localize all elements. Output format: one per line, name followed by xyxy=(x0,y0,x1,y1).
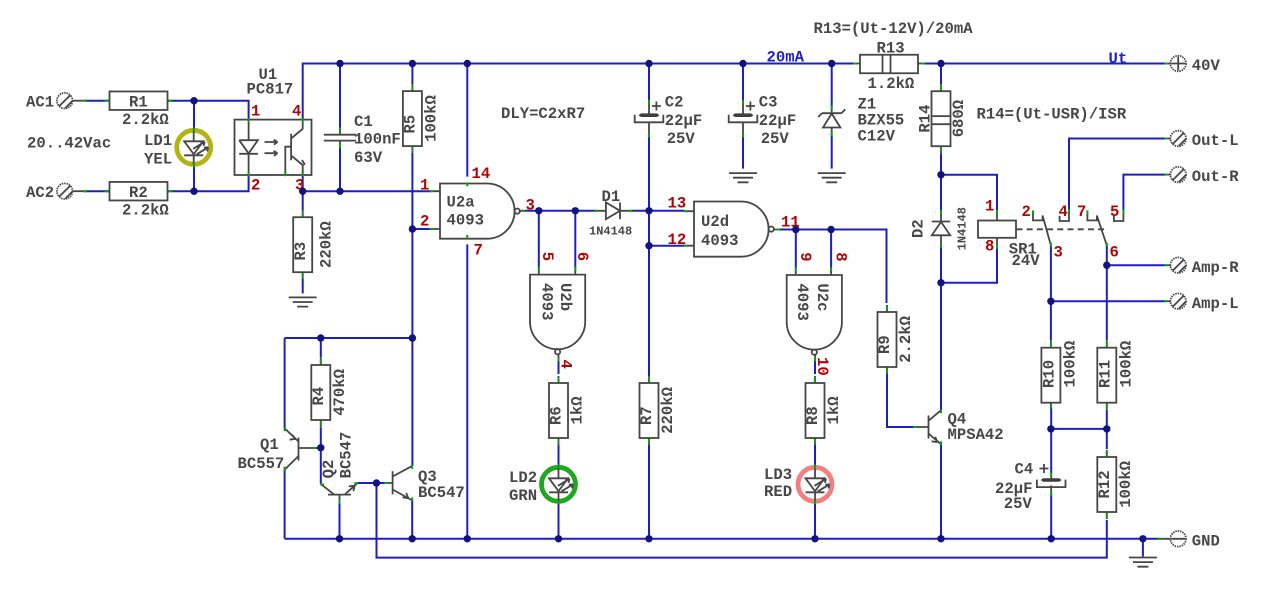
wire top supply rail left (U1 pin4 up, across to R13) xyxy=(303,64,854,120)
svg-text:12: 12 xyxy=(668,231,687,249)
wire R5 bottom down through U2a pin2 node to Q3 collector xyxy=(411,153,413,466)
wire U2b output to R6 xyxy=(558,361,560,375)
svg-text:D1: D1 xyxy=(602,188,621,206)
wire D2 bottom to node xyxy=(940,247,942,283)
svg-text:8: 8 xyxy=(832,252,850,261)
svg-text:C1: C1 xyxy=(354,113,373,131)
junction U2a pin2 node xyxy=(409,225,416,232)
svg-text:R13=(Ut-12V)/20mA: R13=(Ut-12V)/20mA xyxy=(814,20,974,38)
svg-text:R12: R12 xyxy=(1096,470,1114,498)
svg-text:4093: 4093 xyxy=(793,283,811,320)
wire R8 to LD3 xyxy=(814,445,816,465)
relay contact B (pins 7,5,6) xyxy=(1077,203,1124,261)
svg-text:2.2kΩ: 2.2kΩ xyxy=(122,202,169,220)
svg-text:470kΩ: 470kΩ xyxy=(331,369,349,416)
wire C3 top xyxy=(742,64,744,101)
svg-text:2: 2 xyxy=(1022,203,1031,221)
zener diode Z1 xyxy=(818,95,904,145)
junction U2b pin5 tap xyxy=(535,207,542,214)
svg-text:Q2: Q2 xyxy=(320,460,338,479)
svg-text:R14=(Ut-USR)/ISR: R14=(Ut-USR)/ISR xyxy=(977,106,1127,124)
junction Amp-L node xyxy=(1047,298,1054,305)
junction Z1 top rail xyxy=(828,60,835,67)
svg-text:R2: R2 xyxy=(129,184,148,202)
svg-text:AC2: AC2 xyxy=(26,184,54,202)
svg-text:63V: 63V xyxy=(354,149,383,167)
wire node to relay coil pin1 xyxy=(941,175,997,211)
wire R14 top from rail xyxy=(940,64,942,85)
wire R5 top xyxy=(411,64,413,85)
wire U2a pin14 from rail xyxy=(466,64,468,177)
svg-text:22µF: 22µF xyxy=(665,112,702,130)
wire U2d output to R9 corner xyxy=(780,230,887,304)
terminal Out-R xyxy=(1164,167,1239,186)
svg-text:100kΩ: 100kΩ xyxy=(422,95,440,142)
svg-text:1kΩ: 1kΩ xyxy=(569,396,587,424)
svg-text:GRN: GRN xyxy=(509,487,537,505)
svg-text:Amp-L: Amp-L xyxy=(1192,295,1239,313)
svg-text:4093: 4093 xyxy=(701,232,738,250)
svg-text:C2: C2 xyxy=(665,94,684,112)
svg-text:100kΩ: 100kΩ xyxy=(1117,461,1135,508)
svg-text:24V: 24V xyxy=(1012,252,1041,270)
wire R4 top xyxy=(320,338,322,358)
junction C2 top rail xyxy=(645,60,652,67)
wire base node down to Q2 collector xyxy=(320,448,322,484)
junction R14 top rail xyxy=(937,60,944,67)
svg-text:13: 13 xyxy=(668,195,687,213)
svg-text:4: 4 xyxy=(292,103,301,121)
svg-text:5: 5 xyxy=(538,252,556,261)
wire Amp-L node to terminal xyxy=(1051,300,1165,302)
junction C3 top rail xyxy=(739,60,746,67)
wire U2c pin8 drop xyxy=(830,230,832,269)
resistor R4 xyxy=(310,358,349,427)
svg-text:14: 14 xyxy=(472,165,491,183)
wire Amp-L node down to R10 xyxy=(1050,301,1052,340)
wire R2 to U1 pin2 xyxy=(167,176,249,191)
svg-text:U2b: U2b xyxy=(556,283,574,311)
wire D2 top xyxy=(940,175,942,211)
wire top supply rail right (R13 to 40V terminal) xyxy=(924,63,1166,65)
svg-text:1: 1 xyxy=(985,197,994,215)
SECTION: junctions xyxy=(190,60,1146,543)
svg-text:R14: R14 xyxy=(916,105,934,133)
wire U2a pin7 down to GND rail xyxy=(466,244,468,538)
junction U2b pin6 tap xyxy=(572,207,579,214)
junction Q3 collector node xyxy=(409,334,416,341)
svg-text:R9: R9 xyxy=(876,335,894,354)
wire R9 bottom to Q4 base xyxy=(887,374,914,427)
resistor R8 xyxy=(804,376,843,445)
junction divider node R11 xyxy=(1103,425,1110,432)
wire R7 bottom to GND rail xyxy=(648,445,650,539)
wire Q4 collector up to relay node xyxy=(940,283,942,410)
svg-text:R10: R10 xyxy=(1040,360,1058,388)
svg-text:100nF: 100nF xyxy=(354,130,401,148)
svg-text:220kΩ: 220kΩ xyxy=(659,387,677,434)
terminal Out-L xyxy=(1164,131,1238,150)
junction GND rail Q3 emitter xyxy=(409,535,416,542)
resistor R14 xyxy=(916,84,968,153)
capacitor C3 xyxy=(729,94,797,149)
svg-text:1kΩ: 1kΩ xyxy=(825,396,843,424)
wire GND rail stub to ground symbol xyxy=(1142,539,1144,557)
LED LD1 xyxy=(144,128,211,169)
svg-text:1: 1 xyxy=(251,103,260,121)
transistor Q2 (NPN BC547 rotated) xyxy=(320,432,358,504)
svg-text:R5: R5 xyxy=(402,115,420,134)
wire LD3 to GND rail xyxy=(814,503,816,539)
LED LD2 xyxy=(509,465,576,505)
wire U2d pin12 xyxy=(649,245,685,247)
junction divider node R10 xyxy=(1047,425,1054,432)
wire divider node row xyxy=(1051,428,1107,430)
svg-text:YEL: YEL xyxy=(144,150,172,168)
junction D1 C2 node xyxy=(645,207,652,214)
junction LD1 bottom xyxy=(190,188,197,195)
svg-text:1.2kΩ: 1.2kΩ xyxy=(868,75,915,93)
terminal Amp-R xyxy=(1164,257,1239,276)
junction U2a pin14 rail xyxy=(464,60,471,67)
wire D1 to U2d pin13 xyxy=(632,210,685,212)
svg-text:LD1: LD1 xyxy=(144,132,172,150)
svg-text:RED: RED xyxy=(764,483,792,501)
svg-text:BC557: BC557 xyxy=(238,455,285,473)
svg-text:9: 9 xyxy=(796,252,814,261)
wire U2b pin6 drop xyxy=(574,211,576,268)
wire U2a pin2 xyxy=(412,228,430,230)
wire C4 top xyxy=(1050,429,1052,473)
wire Q2 base down to GND rail xyxy=(339,503,341,539)
junction R14 bottom node xyxy=(937,171,944,178)
svg-text:1: 1 xyxy=(420,177,429,195)
svg-text:R3: R3 xyxy=(292,242,310,261)
resistor R3 xyxy=(292,210,336,279)
svg-text:4093: 4093 xyxy=(447,211,484,229)
wire relay pin4 up to Out-L xyxy=(1069,139,1165,211)
svg-text:PC817: PC817 xyxy=(247,81,294,99)
svg-text:8: 8 xyxy=(985,238,994,256)
svg-text:5: 5 xyxy=(1110,203,1119,221)
resistor R5 xyxy=(402,84,441,153)
svg-text:LD2: LD2 xyxy=(509,469,537,487)
svg-text:R11: R11 xyxy=(1096,360,1114,388)
svg-text:U2a: U2a xyxy=(447,194,475,212)
LED LD3 xyxy=(764,465,832,505)
NAND gate U2a xyxy=(420,165,535,259)
svg-text:7: 7 xyxy=(1077,203,1086,221)
svg-text:Q1: Q1 xyxy=(260,436,279,454)
wire C3 bottom to ground xyxy=(742,137,744,169)
junction Q3 base node xyxy=(373,479,380,486)
junction GND rail R7 xyxy=(645,535,652,542)
svg-text:GND: GND xyxy=(1192,532,1220,550)
wire R6 to LD2 xyxy=(558,445,560,465)
capacitor C4 xyxy=(995,460,1065,513)
svg-text:D2: D2 xyxy=(910,219,928,238)
diode D2 xyxy=(910,207,970,250)
SECTION: wires xyxy=(84,64,1166,558)
junction GND rail C4 xyxy=(1048,535,1055,542)
svg-text:10: 10 xyxy=(813,357,831,376)
svg-text:100kΩ: 100kΩ xyxy=(1117,341,1135,388)
wire C4 bottom to GND rail xyxy=(1050,495,1052,539)
svg-text:22µF: 22µF xyxy=(759,112,796,130)
transistor Q4 (NPN MPSA42) xyxy=(913,409,1003,445)
svg-text:2.2kΩ: 2.2kΩ xyxy=(897,316,915,363)
junction GND rail LD2 xyxy=(555,535,562,542)
junction R5 top rail xyxy=(409,60,416,67)
svg-text:2: 2 xyxy=(251,177,260,195)
junction GND rail Q2 base xyxy=(336,535,343,542)
resistor R11 xyxy=(1096,341,1135,410)
svg-text:25V: 25V xyxy=(1004,495,1033,513)
wire R14 bottom to node xyxy=(940,153,942,174)
svg-text:3: 3 xyxy=(526,196,535,214)
svg-text:U2c: U2c xyxy=(813,283,831,311)
wire AC2 terminal to R2 xyxy=(84,190,110,192)
svg-text:R7: R7 xyxy=(638,406,656,425)
wire Z1 bottom to ground xyxy=(831,136,833,169)
wire R12 bottom to lower sense bus xyxy=(377,483,1107,558)
svg-text:2: 2 xyxy=(420,212,429,230)
terminal GND xyxy=(1157,531,1219,550)
NAND gate U2b xyxy=(530,252,591,369)
wire Q2 emitter to Q3 base node xyxy=(357,482,385,484)
junction U2c pin9 tap xyxy=(792,226,799,233)
svg-text:Out-L: Out-L xyxy=(1192,132,1239,150)
wire GND rail xyxy=(285,538,1159,540)
wire LD1 branch vertical xyxy=(193,101,195,192)
NAND gate U2c xyxy=(787,252,850,376)
svg-text:3: 3 xyxy=(1054,243,1063,261)
junction R4 bottom Q1 base node xyxy=(317,444,324,451)
wire R4 bottom to base node xyxy=(320,427,322,448)
wire Z1 top xyxy=(831,64,833,107)
wire U1 pin3 down to node rail xyxy=(302,176,304,191)
junction GND rail ground stub xyxy=(1139,535,1146,542)
svg-text:4093: 4093 xyxy=(538,283,556,320)
junction LD1 top xyxy=(190,97,197,104)
svg-text:680Ω: 680Ω xyxy=(950,100,968,137)
wire Q4 emitter to GND rail xyxy=(940,444,942,539)
wire Amp-R node to terminal xyxy=(1107,264,1165,266)
relay coil SR1 xyxy=(978,197,1105,270)
svg-text:C12V: C12V xyxy=(858,127,896,145)
wire relay pin3 down to Amp-L node xyxy=(1050,246,1052,301)
svg-text:20..42Vac: 20..42Vac xyxy=(27,134,111,152)
junction GND rail LD3 xyxy=(811,535,818,542)
terminal AC1 xyxy=(26,93,87,111)
junction GND rail U2a pin7 xyxy=(464,535,471,542)
wire R1 to U1 pin1 xyxy=(167,101,249,119)
svg-text:R1: R1 xyxy=(129,93,148,111)
diode D1 xyxy=(589,188,632,238)
junction U2d pin12 tap xyxy=(645,242,652,249)
svg-text:20mA: 20mA xyxy=(767,49,805,67)
svg-text:4: 4 xyxy=(1059,203,1068,221)
terminal AC2 xyxy=(26,183,87,201)
svg-text:R13: R13 xyxy=(877,39,905,57)
ground for Z1 xyxy=(818,173,846,182)
wire R3 top xyxy=(302,191,304,210)
resistor R6 xyxy=(548,376,587,445)
terminal Amp-L xyxy=(1164,293,1238,312)
svg-text:2.2kΩ: 2.2kΩ xyxy=(122,111,169,129)
svg-text:6: 6 xyxy=(573,252,591,261)
svg-text:25V: 25V xyxy=(761,130,790,148)
optocoupler U1 xyxy=(235,66,312,195)
svg-text:40V: 40V xyxy=(1192,57,1221,75)
wire LD2 to GND rail xyxy=(558,503,560,539)
svg-text:Out-R: Out-R xyxy=(1192,168,1239,186)
transistor Q1 (PNP BC557) xyxy=(238,428,317,473)
wire U2a output to D1 xyxy=(525,210,596,212)
svg-text:Ut: Ut xyxy=(1109,50,1128,68)
relay contact A (pins 2,4,3) xyxy=(1022,203,1071,261)
resistor R2 xyxy=(105,182,173,220)
svg-text:MPSA42: MPSA42 xyxy=(948,426,1004,444)
wire relay coil pin8 to node xyxy=(941,248,997,283)
capacitor C1 xyxy=(324,113,401,167)
wire C1 top xyxy=(339,64,341,128)
junction R4 top node xyxy=(317,334,324,341)
svg-text:Amp-R: Amp-R xyxy=(1192,259,1239,277)
svg-text:C4: C4 xyxy=(1015,460,1034,478)
svg-text:U2d: U2d xyxy=(701,213,729,231)
wire Q1 base xyxy=(314,447,321,449)
svg-text:DLY=C2xR7: DLY=C2xR7 xyxy=(501,105,585,123)
wire U2c output to R8 xyxy=(814,361,816,375)
junction U1 pin3 node xyxy=(299,188,306,195)
wire Q1 collector down to GND rail corner xyxy=(284,470,286,539)
wire Q3 emitter down to GND rail xyxy=(411,500,413,538)
svg-text:C3: C3 xyxy=(759,94,778,112)
wire U2b pin5 drop xyxy=(538,211,540,268)
capacitor C2 xyxy=(635,94,703,149)
svg-text:4: 4 xyxy=(557,360,575,369)
resistor R10 xyxy=(1040,341,1079,410)
svg-text:220kΩ: 220kΩ xyxy=(318,221,336,268)
ground at GND rail xyxy=(1129,558,1157,567)
svg-text:BC547: BC547 xyxy=(418,484,465,502)
resistor R9 xyxy=(876,305,915,374)
terminal 40V xyxy=(1164,56,1220,75)
junction Amp-R node xyxy=(1103,262,1110,269)
junction GND rail Q4 emitter xyxy=(937,535,944,542)
wire relay pin6 down through Amp-R node to R11 xyxy=(1106,246,1108,341)
svg-text:AC1: AC1 xyxy=(26,93,54,111)
wire node rail U1 pin3 to U2a pin1 xyxy=(303,190,431,192)
svg-text:1N4148: 1N4148 xyxy=(589,224,632,238)
junction C1 top rail xyxy=(336,60,343,67)
wire node row Q1 to R4 to Q3 collector vertical xyxy=(285,337,413,339)
resistor R13 xyxy=(853,39,925,93)
svg-text:6: 6 xyxy=(1110,243,1119,261)
svg-text:LD3: LD3 xyxy=(764,466,792,484)
svg-text:1N4148: 1N4148 xyxy=(955,207,969,250)
wire AC1 terminal to R1 xyxy=(84,100,110,102)
ground for C3 xyxy=(729,173,757,182)
wire R10 bottom to divider node xyxy=(1050,407,1052,429)
junction D2 bottom node xyxy=(937,279,944,286)
wire relay pin5 up to Out-R xyxy=(1123,175,1164,210)
NAND gate U2d xyxy=(668,195,800,257)
wire C2 top xyxy=(648,64,650,101)
wire Q1 emitter up to node row xyxy=(284,338,286,428)
svg-text:25V: 25V xyxy=(667,130,696,148)
wire R11 bottom to divider node xyxy=(1106,410,1108,429)
junction U2c pin8 tap xyxy=(827,226,834,233)
svg-text:7: 7 xyxy=(474,241,483,259)
junction C1 bottom node xyxy=(336,188,343,195)
svg-text:R6: R6 xyxy=(548,406,566,425)
resistor R7 xyxy=(638,376,677,445)
wire C2 bottom through D1 node and pin12 node to R7 xyxy=(648,137,650,376)
svg-text:R4: R4 xyxy=(310,387,328,406)
wire R3 bottom to ground xyxy=(302,279,304,293)
svg-text:100kΩ: 100kΩ xyxy=(1061,341,1079,388)
wire R12 top xyxy=(1106,429,1108,449)
resistor R12 xyxy=(1096,450,1135,519)
wire U2c pin9 drop xyxy=(795,230,797,269)
svg-text:BC547: BC547 xyxy=(337,432,355,479)
svg-text:R8: R8 xyxy=(804,406,822,425)
transistor Q3 (NPN BC547) xyxy=(384,465,465,502)
resistor R1 xyxy=(105,91,173,129)
wire C1 bottom xyxy=(339,147,341,191)
ground for R3 xyxy=(289,297,317,306)
